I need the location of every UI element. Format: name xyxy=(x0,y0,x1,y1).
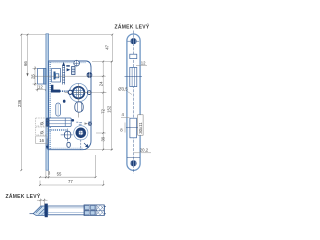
dim 66 line xyxy=(27,35,29,76)
top edge extension xyxy=(92,61,113,63)
lever arm hatched segment xyxy=(60,90,68,92)
dim 47 line right xyxy=(111,35,113,62)
plate centerline xyxy=(133,31,135,174)
plate bottom tick xyxy=(127,156,140,158)
dashed centerline keyhole xyxy=(80,140,82,150)
small rect hole xyxy=(130,54,137,58)
svg-text:20,2: 20,2 xyxy=(140,148,149,153)
svg-text:24: 24 xyxy=(98,81,103,86)
latch nose wedge xyxy=(33,206,45,215)
left slot xyxy=(56,103,61,116)
plate section dark xyxy=(45,204,48,218)
body plan outline xyxy=(48,206,105,215)
top screw xyxy=(128,38,140,45)
key cylinder ring xyxy=(74,126,88,140)
bottom screw xyxy=(130,160,136,167)
svg-text:Ø3,5: Ø3,5 xyxy=(118,87,128,92)
latch bolt head protruding left xyxy=(38,69,46,85)
latch tail block inside xyxy=(52,69,61,83)
spring stack small xyxy=(72,67,75,75)
small dim above nose xyxy=(37,199,48,207)
svg-text:16: 16 xyxy=(39,138,44,143)
55 dim right extension from body edge xyxy=(95,155,97,177)
dim 152 line xyxy=(111,62,113,150)
lever arm bar xyxy=(51,90,60,93)
svg-text:30x11: 30x11 xyxy=(138,122,143,134)
spring ladder column with up arrow xyxy=(63,66,65,85)
body left hatch xyxy=(49,62,51,149)
latch centerline xyxy=(33,75,105,77)
tiny specks text xyxy=(76,122,82,125)
deadbolt opening xyxy=(130,118,137,138)
hub middle circle xyxy=(72,86,84,98)
dimension oblique ticks xyxy=(20,34,113,201)
svg-text:ZÁMEK LEVÝ: ZÁMEK LEVÝ xyxy=(115,24,150,31)
svg-text:47: 47 xyxy=(104,44,109,49)
hub crosshair horizontal xyxy=(65,92,92,94)
strip centerline bottom arrow xyxy=(46,139,48,147)
face plate edge view (strip) xyxy=(46,34,49,170)
top screw with cross xyxy=(73,60,80,67)
bottom edge extension xyxy=(85,149,113,151)
hub crosshair vertical xyxy=(78,84,80,118)
small arrow pointing right xyxy=(67,68,71,71)
svg-text:ZÁMEK LEVÝ: ZÁMEK LEVÝ xyxy=(6,193,41,200)
svg-text:152: 152 xyxy=(107,105,112,113)
svg-text:66: 66 xyxy=(23,61,28,66)
right edge square with x xyxy=(88,122,92,126)
hub outer circle xyxy=(69,83,87,101)
obround below hub xyxy=(75,102,83,112)
small screw dot xyxy=(72,119,75,122)
svg-text:236: 236 xyxy=(17,99,22,107)
svg-text:12: 12 xyxy=(38,85,43,90)
latch centerline overlay xyxy=(34,75,92,77)
svg-text:12: 12 xyxy=(141,60,146,65)
latch opening xyxy=(130,67,137,86)
small rivet below-left of hub xyxy=(63,100,66,103)
dim 55 line xyxy=(40,176,96,178)
dim 236 line xyxy=(20,35,22,171)
svg-text:39: 39 xyxy=(100,136,105,141)
cylinder centerline extension xyxy=(96,132,106,134)
small slot below xyxy=(67,142,70,147)
right edge screw top xyxy=(87,72,93,78)
latch CL tick xyxy=(125,76,143,78)
deadbolt CL tick xyxy=(126,126,141,128)
deadbolt retracted xyxy=(46,118,71,126)
plate outline xyxy=(127,34,140,170)
corner arrow bottom right xyxy=(84,143,88,147)
lever arm riser xyxy=(51,85,53,93)
dim 24-72-39 line xyxy=(102,62,104,150)
left dashed boxes with 16 xyxy=(36,118,47,144)
hub square follower xyxy=(73,87,85,99)
30x11 boxed label xyxy=(138,115,143,135)
dim top horizontal extension line xyxy=(21,34,112,36)
dim 12 bracket under latch xyxy=(37,85,39,92)
dim 25 bracket xyxy=(34,66,36,86)
dim 77 line xyxy=(40,184,103,186)
body top hatch xyxy=(50,62,87,64)
dim 3 bottom extensions xyxy=(45,171,47,179)
gray arrow to right edge square xyxy=(85,122,89,124)
hatched band 2 xyxy=(50,129,68,131)
hub side hole left xyxy=(68,90,72,94)
lever hole circle xyxy=(61,129,73,142)
lock body outline xyxy=(49,61,91,150)
right block blue cells xyxy=(84,205,104,216)
66 dim end arrow xyxy=(26,73,28,76)
svg-text:77: 77 xyxy=(68,179,73,184)
body bottom hatch xyxy=(50,147,84,149)
hub side hole right xyxy=(87,91,91,95)
svg-text:72: 72 xyxy=(101,108,106,113)
svg-text:55: 55 xyxy=(57,171,62,176)
right block crosshatch xyxy=(97,205,105,215)
